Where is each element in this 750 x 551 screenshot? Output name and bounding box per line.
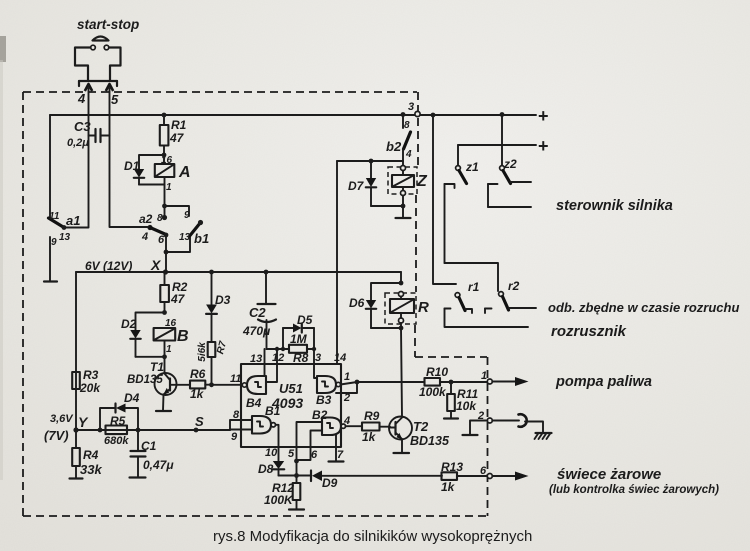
- svg-text:100k: 100k: [419, 385, 447, 399]
- svg-text:11: 11: [230, 373, 241, 385]
- svg-text:D4: D4: [124, 391, 140, 405]
- svg-text:R4: R4: [83, 448, 99, 462]
- B3 outputs pins 1 2: [336, 371, 359, 404]
- svg-text:a2: a2: [139, 212, 153, 226]
- node Y rail: [44, 272, 89, 443]
- svg-text:T1: T1: [150, 360, 164, 374]
- svg-text:9: 9: [184, 210, 190, 221]
- diode D9: [311, 471, 442, 482]
- svg-text:680k: 680k: [104, 435, 129, 447]
- output 2 connector: [463, 410, 552, 439]
- sterownik wires: [488, 182, 531, 207]
- svg-text:3: 3: [315, 352, 321, 364]
- switch r1: [455, 293, 472, 313]
- svg-text:S: S: [195, 414, 204, 429]
- diode D4 loop: [76, 404, 138, 433]
- svg-text:10k: 10k: [456, 399, 477, 413]
- svg-text:5: 5: [288, 448, 295, 460]
- relay coil A: [155, 155, 191, 193]
- node S wire: [138, 414, 230, 432]
- svg-text:r1: r1: [468, 280, 480, 294]
- svg-text:8: 8: [233, 409, 240, 421]
- diode D1: [134, 153, 167, 185]
- connector bar pins 4 5: [79, 81, 117, 91]
- svg-text:D1: D1: [124, 159, 140, 173]
- svg-text:470μ: 470μ: [242, 324, 271, 338]
- resistor R2: [160, 272, 169, 313]
- pin7 ground: [329, 435, 345, 462]
- svg-text:Z: Z: [416, 173, 428, 190]
- svg-text:1: 1: [344, 371, 350, 383]
- node X: [150, 252, 168, 275]
- svg-text:14: 14: [334, 352, 346, 364]
- svg-text:D8: D8: [258, 462, 274, 476]
- svg-text:1: 1: [481, 370, 487, 382]
- svg-text:0,2μ: 0,2μ: [67, 137, 89, 149]
- wire to r2: [445, 263, 499, 291]
- diode D2: [130, 310, 167, 357]
- svg-text:4: 4: [141, 231, 148, 243]
- top supply bus +: [50, 114, 536, 116]
- svg-text:R: R: [418, 299, 429, 316]
- svg-text:rozrusznik: rozrusznik: [551, 323, 627, 340]
- svg-text:b2: b2: [386, 139, 402, 154]
- svg-text:R5: R5: [110, 414, 126, 428]
- svg-text:16: 16: [165, 318, 177, 329]
- wire pin4 down: [88, 88, 90, 227]
- node 3: [401, 101, 421, 117]
- svg-text:+: +: [538, 106, 549, 126]
- svg-text:r2: r2: [508, 279, 520, 293]
- svg-text:R8: R8: [293, 351, 309, 365]
- svg-text:1M: 1M: [290, 332, 308, 346]
- svg-text:D9: D9: [322, 476, 338, 490]
- svg-text:BD135: BD135: [127, 374, 163, 386]
- svg-text:20k: 20k: [79, 381, 101, 395]
- svg-text:8: 8: [157, 213, 163, 224]
- svg-text:12: 12: [272, 352, 284, 364]
- svg-text:16: 16: [161, 155, 173, 166]
- resistor R1: [160, 113, 169, 164]
- gate B2: [312, 408, 345, 435]
- IC U51 4093 box: [241, 364, 341, 447]
- svg-text:47: 47: [170, 292, 186, 306]
- svg-text:D5: D5: [297, 313, 313, 327]
- wire swiece row: [279, 475, 312, 477]
- output 6: [480, 465, 529, 481]
- relay coil Z: [392, 166, 428, 196]
- svg-text:świece żarowe: świece żarowe: [557, 466, 661, 483]
- resistor R6: [177, 381, 212, 389]
- svg-text:B: B: [177, 328, 189, 345]
- svg-text:(lub kontrolka świec żarowych): (lub kontrolka świec żarowych): [549, 484, 719, 496]
- svg-text:1: 1: [166, 182, 172, 193]
- svg-text:B3: B3: [316, 393, 332, 407]
- svg-text:0,47μ: 0,47μ: [143, 458, 174, 472]
- pin12 wire: [266, 349, 284, 382]
- svg-text:z2: z2: [503, 157, 517, 171]
- switch a1: [49, 115, 89, 230]
- svg-text:C1: C1: [141, 439, 157, 453]
- svg-text:start-stop: start-stop: [77, 17, 139, 32]
- svg-text:1k: 1k: [441, 480, 456, 494]
- svg-text:R3: R3: [83, 368, 99, 382]
- svg-text:R10: R10: [426, 365, 448, 379]
- switch b1: [164, 220, 203, 255]
- resistor R3: [72, 368, 101, 395]
- svg-text:C2: C2: [249, 305, 266, 320]
- svg-text:BD135: BD135: [410, 434, 450, 448]
- resistor R12: [289, 461, 304, 510]
- svg-text:6: 6: [158, 234, 165, 246]
- svg-text:6V (12V): 6V (12V): [85, 259, 132, 273]
- svg-text:47: 47: [169, 131, 185, 145]
- svg-text:R6: R6: [190, 367, 206, 381]
- svg-text:1k: 1k: [362, 430, 377, 444]
- gate B3: [316, 376, 340, 407]
- svg-text:33k: 33k: [80, 462, 102, 477]
- wire to r1: [431, 113, 456, 284]
- svg-text:B1: B1: [265, 404, 281, 418]
- wire R coil to T2 collector: [399, 323, 404, 417]
- relay Z dashed box: [388, 167, 417, 194]
- transistor T2: [389, 417, 412, 454]
- svg-text:6: 6: [480, 465, 487, 477]
- transistor T1: [155, 357, 177, 411]
- svg-text:B4: B4: [246, 396, 262, 410]
- svg-text:rys.8 Modyfikacja do silnikikó: rys.8 Modyfikacja do silnikików wysokopr…: [213, 528, 532, 545]
- switch r2: [485, 292, 509, 313]
- svg-text:3: 3: [408, 101, 414, 113]
- diode D5: [283, 324, 314, 350]
- svg-text:C3: C3: [74, 119, 91, 134]
- switch z1: [445, 145, 467, 263]
- B1 out to D8: [265, 425, 279, 461]
- svg-text:a1: a1: [66, 213, 80, 228]
- contact 9 stub of a1: [44, 237, 57, 282]
- svg-text:odb. zbędne w czasie rozruchu: odb. zbędne w czasie rozruchu: [548, 300, 739, 315]
- resistor R8: [267, 345, 317, 353]
- svg-text:6: 6: [311, 449, 318, 461]
- push button S1: [75, 37, 121, 81]
- wire pin14 riser: [336, 161, 338, 364]
- svg-text:7: 7: [337, 449, 344, 461]
- svg-text:8: 8: [404, 120, 410, 131]
- svg-text:3,6V: 3,6V: [50, 413, 74, 425]
- svg-text:5i6k: 5i6k: [197, 342, 208, 362]
- pins 8 9 into B1: [230, 409, 252, 443]
- diode D7: [337, 159, 403, 206]
- output 1: [481, 370, 529, 386]
- svg-text:X: X: [150, 257, 162, 273]
- svg-text:A: A: [178, 164, 191, 181]
- svg-text:1k: 1k: [190, 387, 205, 401]
- svg-text:D6: D6: [349, 296, 365, 310]
- svg-text:D2: D2: [121, 317, 137, 331]
- svg-text:4: 4: [405, 149, 412, 160]
- resistor R9: [362, 423, 390, 431]
- relay coil B: [154, 318, 189, 359]
- relay coil R: [390, 292, 429, 324]
- svg-text:+: +: [538, 136, 549, 156]
- X supply bus: [76, 271, 401, 273]
- ground below Z: [396, 196, 411, 219]
- node 8-9 contacts below relay A: [157, 177, 190, 224]
- wire to pin11: [209, 373, 244, 387]
- rozrusznik wire: [445, 309, 529, 328]
- svg-text:z1: z1: [465, 160, 479, 174]
- svg-text:R13: R13: [441, 460, 463, 474]
- diode D6: [366, 272, 404, 328]
- relay R dashed box: [385, 293, 416, 324]
- svg-text:(7V): (7V): [44, 428, 69, 443]
- gate B1: [252, 404, 281, 434]
- pompa wire + R10: [357, 378, 488, 386]
- wire pin5 down: [110, 88, 149, 227]
- svg-text:pompa paliwa: pompa paliwa: [555, 374, 652, 390]
- svg-text:D7: D7: [348, 179, 365, 193]
- svg-text:U51: U51: [279, 381, 303, 396]
- svg-text:T2: T2: [413, 419, 429, 434]
- switch a2: [147, 225, 168, 238]
- svg-text:1: 1: [166, 344, 172, 355]
- svg-text:11: 11: [49, 211, 60, 222]
- capacitor C2: [258, 270, 277, 349]
- svg-text:2: 2: [343, 392, 350, 404]
- pin13 wire: [250, 349, 265, 376]
- svg-text:5: 5: [111, 92, 119, 107]
- svg-text:B2: B2: [312, 408, 328, 422]
- svg-text:4: 4: [343, 415, 350, 427]
- switch b2: [386, 115, 412, 166]
- svg-text:13: 13: [59, 232, 71, 243]
- resistor R5: [100, 414, 138, 447]
- svg-text:100K: 100K: [264, 493, 294, 507]
- svg-text:13: 13: [179, 232, 191, 243]
- svg-text:4: 4: [77, 91, 86, 106]
- svg-text:D3: D3: [215, 293, 231, 307]
- dashed enclosure border: [23, 92, 488, 516]
- B2 output pin 4 to R9: [343, 415, 362, 427]
- resistor R11: [444, 380, 458, 419]
- svg-text:b1: b1: [194, 231, 209, 246]
- svg-text:R1: R1: [171, 118, 187, 132]
- resistor R4: [70, 427, 83, 478]
- resistor R13: [442, 472, 488, 480]
- capacitor C1: [130, 428, 146, 478]
- switch z2: [488, 112, 511, 207]
- resistor R7: [197, 340, 229, 385]
- second supply bus +: [458, 144, 536, 146]
- capacitor C3: [89, 129, 110, 142]
- diode D8: [273, 461, 284, 476]
- svg-text:9: 9: [231, 431, 238, 443]
- gate B4: [242, 376, 266, 410]
- pin3 wire: [314, 349, 321, 378]
- edge smudge left: [0, 36, 6, 62]
- svg-text:R9: R9: [364, 409, 380, 423]
- diode D3: [206, 270, 217, 342]
- svg-text:9: 9: [51, 237, 57, 248]
- odb wire: [509, 307, 536, 309]
- svg-text:sterownik silnika: sterownik silnika: [556, 198, 673, 214]
- svg-text:10: 10: [265, 447, 278, 459]
- B2 inputs pins 5 6: [288, 422, 322, 463]
